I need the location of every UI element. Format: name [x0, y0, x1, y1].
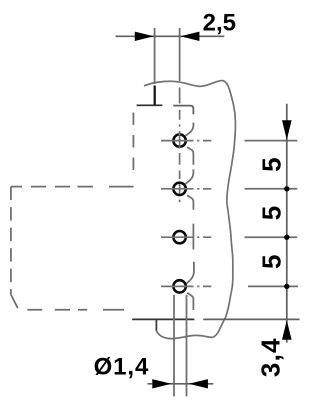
- hole 1 (Ø1,4): [173, 134, 185, 146]
- chain dot at hole 2 line: [284, 186, 289, 191]
- hole 2 horizontal centerline: [161, 188, 211, 190]
- vertical dimension chain line (5 / 5 / 5 / 3,4): [286, 104, 288, 343]
- hole 3: [173, 231, 185, 243]
- hole 1 horizontal centerline: [161, 140, 211, 142]
- hole 2 lower-right corner hook: [187, 195, 193, 210]
- PCB bottom edge corner vertical: [155, 319, 157, 330]
- svg-text:3,4: 3,4: [255, 337, 285, 377]
- svg-text:5: 5: [257, 206, 287, 220]
- hole 1 lower-right corner hook: [187, 147, 193, 165]
- connector right edge segment beside hole 3: [192, 224, 194, 250]
- hole 4 extension line to dimension: [248, 285, 298, 287]
- chain dot at hole 4 line: [284, 284, 289, 289]
- PCB bottom edge right segment (extension for 3,4): [203, 318, 299, 320]
- hole 1 break-out spline: [185, 123, 193, 136]
- arrowhead pointing left at right extension line: [180, 32, 199, 41]
- PCB bottom edge left segment with corner down: [132, 318, 194, 320]
- connector hidden outline: inner right edge (dashed): [132, 113, 134, 177]
- hole 4 lower-right corner hook: [187, 293, 193, 310]
- svg-text:5: 5: [257, 157, 287, 171]
- Ø1,4 dimension line: [148, 383, 214, 385]
- extension line left of 2,5 dim (board edge projection): [154, 28, 156, 84]
- arrowhead pointing right at left hole edge: [152, 379, 171, 388]
- connector hidden outline: left edge (dashed): [10, 187, 12, 295]
- hole 3 horizontal centerline: [161, 236, 211, 238]
- Ø1,4 left extension line: [173, 295, 175, 397]
- hole 4 horizontal centerline: [161, 285, 211, 287]
- dimension line 2,5 left tail: [116, 35, 155, 37]
- connector hidden outline: bottom edge (dashed): [27, 309, 124, 311]
- arrowhead pointing up at PCB bottom edge: [282, 320, 292, 339]
- connector front top edge with corner: [173, 106, 193, 115]
- connector hidden outline: chamfer corner (dashed): [11, 295, 18, 309]
- dimension line 2,5 middle segment: [155, 35, 180, 37]
- hole 2 extension line to dimension: [245, 188, 298, 190]
- svg-text:5: 5: [257, 255, 287, 269]
- hole 4: [173, 280, 185, 292]
- top break line (wavy) continuing into right vertical break: [144, 81, 235, 338]
- centerline dash below break: [179, 88, 181, 104]
- bottom break line (wavy): [156, 331, 212, 339]
- PCB left edge (thick, above connector): [154, 86, 156, 106]
- hole 2 break-out spline: [185, 169, 193, 184]
- PCB edge top tick bar: [137, 104, 163, 106]
- hole 3 extension line to dimension: [245, 236, 298, 238]
- hole 1 vertical centerline (dash-dot): [179, 110, 181, 203]
- hole 2: [173, 183, 185, 195]
- dimension line 2,5 right tail: [180, 35, 225, 37]
- chain dot at hole 3 line: [284, 235, 289, 240]
- svg-text:Ø1,4: Ø1,4: [94, 354, 150, 381]
- svg-text:2,5: 2,5: [203, 10, 236, 37]
- hole 4 break-out spline: [186, 262, 194, 284]
- arrowhead pointing left at right hole edge: [189, 379, 208, 388]
- Ø1,4 right extension line: [186, 295, 188, 397]
- extension line right of 2,5 dim (hole axis projection, solid upper part): [179, 28, 181, 81]
- arrowhead pointing right at left extension line: [135, 32, 154, 41]
- arrowhead pointing down at hole 1 line: [282, 120, 292, 139]
- hole 1 extension line to dimension: [245, 140, 298, 142]
- connector hidden outline: top edge (dashed): [11, 186, 134, 188]
